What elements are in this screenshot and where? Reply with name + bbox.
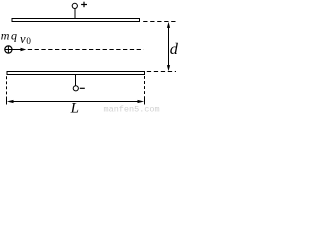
wire: top terminal lead [74,9,76,19]
dashed extension line below left end of bottom plate [6,76,8,96]
top terminal circle [72,3,77,8]
svg-text:q: q [11,29,17,43]
minus label (-) [80,87,85,89]
top plate P1 (positive plate) [12,19,140,22]
svg-text:L: L [70,101,79,113]
dashed extension line from top plate [143,21,177,23]
tick terminator at right end of L dimension [144,97,146,105]
svg-text:0: 0 [26,36,31,46]
plus label (+) [81,2,87,8]
svg-text:m: m [1,29,10,43]
dimension arrow L (plate length) [7,100,144,103]
bottom terminal circle [73,86,78,91]
charged particle (plus-in-circle) [5,46,12,53]
svg-text:v: v [20,32,26,46]
dashed extension line from bottom plate [147,71,176,73]
svg-text:manfen5.com: manfen5.com [104,105,160,113]
dimension arrow d (plate gap) [167,22,170,71]
label v0 [20,32,31,46]
velocity arrow v0 [12,48,26,52]
bottom plate P2 (negative plate) [7,72,145,75]
dashed axis line (particle trajectory) [28,49,144,51]
tick terminator at left end of L dimension [6,97,8,105]
wire: bottom terminal lead [75,75,77,86]
dashed extension line below right end of bottom plate [144,76,146,97]
svg-text:d: d [170,39,179,58]
